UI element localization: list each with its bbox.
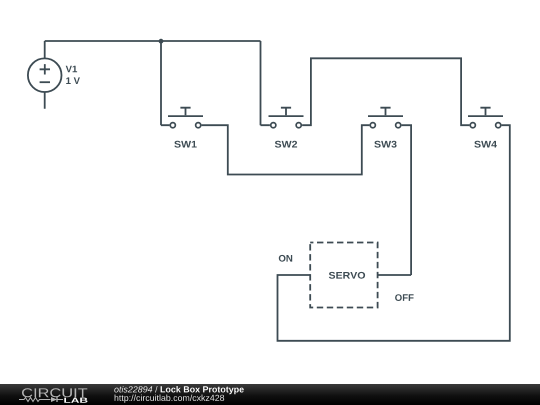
label SW4 <box>474 141 497 148</box>
servo box (dashed) <box>310 243 377 308</box>
node label OFF <box>395 294 414 301</box>
value label 1 V <box>66 77 80 84</box>
switch SW2 <box>269 108 304 128</box>
node label ON <box>279 255 292 262</box>
switch SW1 <box>168 108 203 128</box>
label SERVO <box>329 272 365 279</box>
wire top rail from V1 to SW2 drop <box>45 40 261 42</box>
label SW1 <box>174 141 196 148</box>
label SW3 <box>374 141 396 148</box>
switch SW4 <box>468 108 503 128</box>
CircuitLab footer <box>0 384 540 405</box>
wire rail down to SW2 left <box>261 41 270 125</box>
junction dot <box>159 39 164 44</box>
wire SW2 right up and over to SW4 left <box>302 58 469 125</box>
label V1 <box>66 66 77 73</box>
wire SW3 right down to servo right terminal <box>378 125 412 275</box>
switch SW3 <box>368 108 403 128</box>
wire SW1 right to SW3 left <box>202 125 370 174</box>
wire servo left terminal down along bottom and up to SW4 right <box>278 125 510 341</box>
label SW2 <box>275 141 297 148</box>
wire junction down to SW1 left <box>161 41 169 125</box>
voltage source V1 <box>28 41 62 109</box>
